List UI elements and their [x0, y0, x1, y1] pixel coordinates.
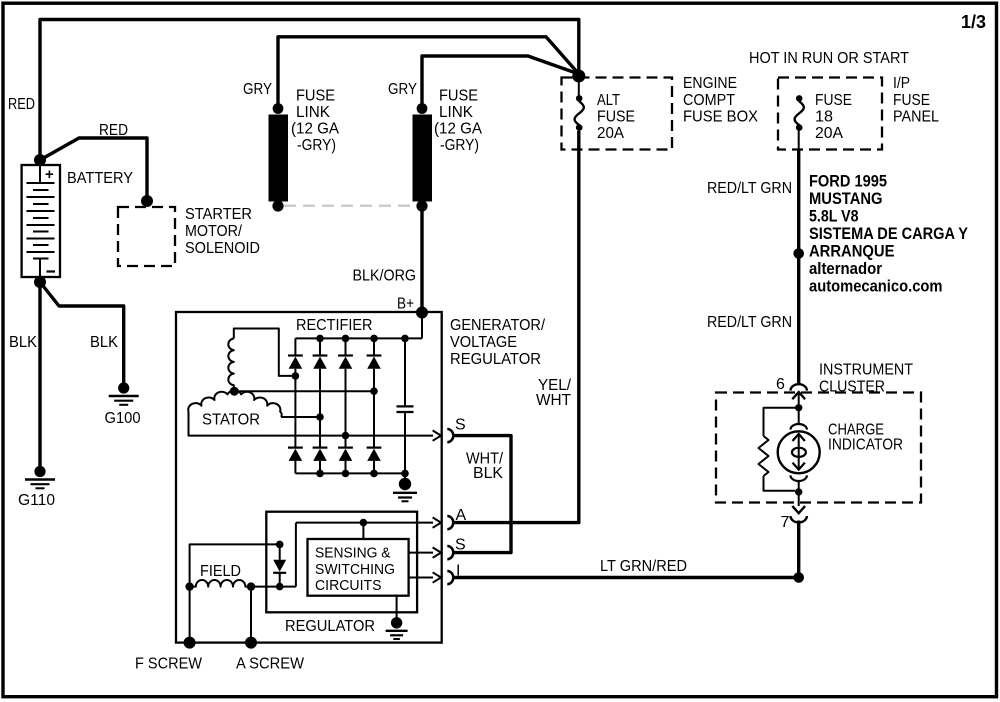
- wire field left to F screw: [189, 587, 191, 643]
- svg-text:MUSTANG: MUSTANG: [809, 190, 883, 208]
- stator coil horizontal: [188, 391, 281, 417]
- svg-text:FUSE: FUSE: [893, 92, 930, 109]
- resistor parallel with charge indicator: [759, 408, 799, 491]
- I/P fuse panel box (dashed): [778, 78, 882, 150]
- svg-text:BLK: BLK: [9, 334, 37, 351]
- node splice on RED/LT GRN: [793, 248, 804, 259]
- diode D5 column 1 lower: [288, 448, 303, 474]
- svg-text:LT GRN/RED: LT GRN/RED: [600, 558, 687, 575]
- generator / voltage regulator box U1: [176, 312, 442, 643]
- node charge indicator top: [795, 404, 802, 411]
- wire RED/LT GRN fuse 18 down to instrument cluster: [797, 150, 800, 384]
- node bus capacitor: [401, 335, 409, 343]
- svg-text:BATTERY: BATTERY: [67, 170, 133, 187]
- wire stator phase B to column 2: [281, 416, 320, 418]
- svg-text:STATOR: STATOR: [202, 412, 260, 429]
- diode D6 column 2 lower: [313, 448, 328, 474]
- fuse FUSE 18 20A: [795, 95, 804, 149]
- svg-text:WHT: WHT: [536, 392, 571, 409]
- diode D8 column 4 lower: [367, 448, 382, 474]
- regulator box: [266, 512, 417, 613]
- svg-text:20A: 20A: [815, 125, 843, 142]
- svg-text:FUSE: FUSE: [597, 109, 635, 126]
- node field right: [247, 582, 255, 590]
- node B+ terminal: [416, 307, 428, 319]
- node stator phase C to column 3: [342, 432, 350, 440]
- svg-text:alternador: alternador: [809, 260, 883, 278]
- ground regulator: [386, 596, 408, 639]
- svg-text:FIELD: FIELD: [200, 563, 241, 580]
- node stator neutral junction: [230, 387, 239, 396]
- svg-text:FUSE: FUSE: [296, 88, 335, 105]
- svg-text:5.8L V8: 5.8L V8: [809, 208, 859, 226]
- node negative bus col2: [316, 470, 324, 478]
- wire BLK battery negative to G110: [38, 277, 41, 468]
- svg-text:FUSE BOX: FUSE BOX: [683, 109, 758, 126]
- svg-text:LINK: LINK: [439, 104, 473, 121]
- node negative bus col4: [370, 470, 378, 478]
- engine compartment fuse box (dashed): [562, 78, 673, 150]
- svg-text:A SCREW: A SCREW: [236, 656, 305, 673]
- wire WHT/BLK jumper S to S: [453, 436, 511, 553]
- svg-text:7: 7: [781, 514, 790, 531]
- stator coil phase A (vertical): [228, 329, 295, 392]
- svg-text:GRY: GRY: [243, 81, 272, 98]
- svg-text:ALT: ALT: [597, 92, 620, 109]
- svg-text:CIRCUITS: CIRCUITS: [315, 577, 382, 594]
- svg-text:ARRANQUE: ARRANQUE: [809, 243, 895, 261]
- connector 6 instrument cluster: [791, 384, 807, 399]
- node charge indicator bottom: [795, 488, 802, 495]
- svg-text:B+: B+: [397, 296, 414, 313]
- svg-text:SWITCHING: SWITCHING: [315, 561, 395, 578]
- svg-text:BLK: BLK: [473, 465, 503, 482]
- wire inside cluster from connector 6: [798, 393, 800, 425]
- node field left: [185, 582, 193, 590]
- wire BLK battery negative to G100: [40, 282, 124, 384]
- diode D1 column 1 upper: [288, 338, 303, 448]
- wire A terminal line: [296, 522, 433, 524]
- svg-text:FUSE: FUSE: [815, 92, 852, 109]
- svg-text:+: +: [45, 166, 54, 183]
- svg-text:FORD 1995: FORD 1995: [809, 173, 887, 191]
- wire RED battery to starter solenoid: [40, 138, 147, 199]
- svg-text:G100: G100: [105, 410, 141, 427]
- node stator neutral to column 4: [370, 387, 378, 395]
- fuse link F2 (12 GA GRY): [413, 103, 433, 211]
- svg-text:I/P: I/P: [893, 75, 910, 92]
- svg-text:18: 18: [815, 109, 833, 126]
- svg-text:REGULATOR: REGULATOR: [450, 351, 541, 368]
- svg-text:SENSING &: SENSING &: [315, 545, 391, 562]
- field coil L1: [190, 580, 296, 587]
- wire faint dashed link between fuse link bottoms: [284, 205, 416, 208]
- connector cup S2 terminal: [447, 546, 453, 559]
- node corner LT GRN/RED: [793, 572, 804, 583]
- diode D9 field suppression: [273, 541, 286, 591]
- node A screw: [245, 637, 257, 649]
- svg-text:BLK/ORG: BLK/ORG: [353, 268, 417, 285]
- wire stator phase C down and to S terminal: [189, 412, 434, 436]
- wire sensing circuits tap: [362, 523, 364, 539]
- svg-text:INDICATOR: INDICATOR: [828, 437, 903, 454]
- svg-text:(12 GA: (12 GA: [434, 121, 482, 138]
- svg-text:GENERATOR/: GENERATOR/: [450, 317, 546, 334]
- wire GRY feed to fuse link F2: [422, 56, 579, 107]
- diode D2 column 2 upper: [313, 338, 328, 448]
- svg-text:RECTIFIER: RECTIFIER: [296, 317, 373, 334]
- node bus col3: [342, 335, 350, 343]
- ground G100: [109, 382, 139, 404]
- wire stator neutral to column 4: [234, 390, 374, 392]
- svg-text:RED: RED: [8, 96, 35, 113]
- node main junction above ALT fuse: [572, 70, 585, 83]
- svg-text:RED: RED: [99, 122, 128, 139]
- wire inside cluster to connector 7: [798, 492, 800, 506]
- battery B1: [22, 165, 60, 277]
- node negative bus col3: [342, 470, 350, 478]
- fuse link F1 (12 GA GRY): [269, 103, 289, 211]
- svg-text:PANEL: PANEL: [893, 109, 939, 126]
- svg-text:FUSE: FUSE: [439, 88, 478, 105]
- diode D3 column 3 upper: [338, 338, 353, 448]
- node stator phase A to column 1: [292, 372, 300, 380]
- connector arrow S terminal: [433, 430, 441, 440]
- capacitor C1: [397, 338, 414, 473]
- connector arrow I terminal: [433, 572, 441, 582]
- node stator phase B to column 2: [316, 413, 324, 421]
- node battery positive junction: [34, 154, 46, 166]
- svg-text:automecanico.com: automecanico.com: [809, 278, 943, 296]
- svg-text:ENGINE: ENGINE: [683, 75, 737, 92]
- svg-text:-GRY): -GRY): [297, 137, 336, 154]
- wire RED battery positive feed to junction: [40, 20, 579, 166]
- svg-text:6: 6: [776, 376, 785, 393]
- svg-text:RED/LT GRN: RED/LT GRN: [707, 180, 792, 197]
- wire B+ terminal to rectifier bus: [421, 313, 423, 339]
- svg-text:MOTOR/: MOTOR/: [185, 223, 242, 240]
- svg-text:F SCREW: F SCREW: [135, 656, 203, 673]
- instrument cluster box (dashed): [716, 393, 921, 503]
- lamp CHARGE INDICATOR: [778, 424, 820, 489]
- wire BLK/ORG fuse link F2 to B+: [420, 206, 423, 313]
- fuse ALT FUSE 20A: [575, 80, 584, 150]
- connector arrow S2 terminal: [433, 547, 441, 557]
- wire sensing circuits to I terminal: [409, 577, 433, 579]
- connector cup I terminal: [447, 571, 453, 584]
- connector cup S terminal: [447, 429, 453, 442]
- connector cup A terminal: [447, 516, 453, 529]
- svg-text:S: S: [455, 417, 466, 434]
- label title FORD 1995 MUSTANG: [809, 173, 968, 296]
- svg-text:G110: G110: [18, 492, 55, 509]
- svg-text:20A: 20A: [597, 125, 624, 142]
- node bus col4: [370, 335, 378, 343]
- svg-text:GRY: GRY: [388, 81, 417, 98]
- wire sensing circuits to S terminal: [409, 552, 433, 554]
- wire rectifier negative bus: [295, 472, 405, 474]
- wire GRY feed to fuse link F1: [278, 37, 579, 107]
- starter motor solenoid box: [118, 207, 175, 266]
- connector arrow A terminal: [433, 517, 441, 527]
- diode D7 column 3 lower: [338, 448, 353, 474]
- ground G110: [25, 466, 55, 488]
- node A line to sensing circuits: [360, 519, 368, 527]
- node bus col2: [316, 335, 324, 343]
- svg-text:COMPT: COMPT: [683, 92, 735, 109]
- svg-text:SOLENOID: SOLENOID: [185, 240, 260, 257]
- wire rectifier positive bus: [295, 337, 422, 339]
- svg-text:1/3: 1/3: [961, 12, 986, 32]
- ground rectifier internal: [393, 470, 417, 502]
- sensing and switching circuits box: [308, 539, 409, 596]
- wire diode anode to field left: [190, 544, 280, 586]
- svg-text:REGULATOR: REGULATOR: [285, 618, 375, 635]
- node battery negative junction: [34, 276, 46, 288]
- svg-text:STARTER: STARTER: [185, 206, 252, 223]
- wire YEL/WHT A terminal to ALT fuse: [453, 131, 579, 523]
- wire A line down to field/diode junction: [295, 523, 297, 587]
- svg-text:HOT IN RUN OR START: HOT IN RUN OR START: [749, 50, 909, 67]
- node F screw: [184, 637, 196, 649]
- svg-text:LINK: LINK: [296, 104, 330, 121]
- svg-text:(12 GA: (12 GA: [291, 121, 339, 138]
- svg-text:SISTEMA DE CARGA Y: SISTEMA DE CARGA Y: [809, 225, 968, 243]
- wire LT GRN/RED I terminal to instrument cluster: [453, 521, 799, 578]
- diode D4 column 4 upper: [367, 338, 382, 448]
- node starter solenoid terminal: [141, 195, 153, 207]
- svg-text:RED/LT GRN: RED/LT GRN: [707, 314, 792, 331]
- connector 7 instrument cluster: [791, 506, 807, 522]
- wire field right to A screw: [250, 587, 252, 643]
- svg-text:INSTRUMENT: INSTRUMENT: [819, 362, 913, 379]
- svg-text:-GRY): -GRY): [440, 137, 479, 154]
- svg-text:BLK: BLK: [90, 334, 118, 351]
- svg-text:VOLTAGE: VOLTAGE: [450, 334, 517, 351]
